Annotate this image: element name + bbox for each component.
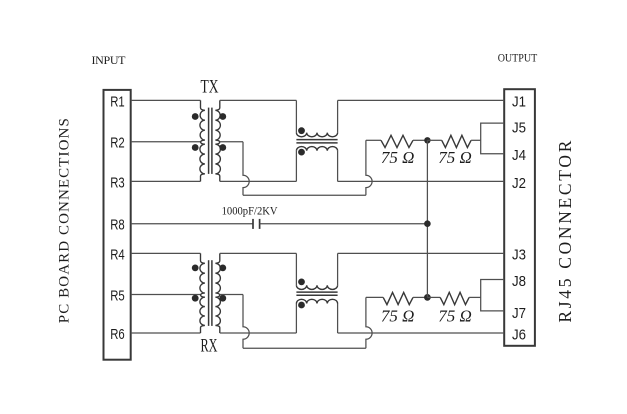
choke L1 top-right lead	[337, 100, 339, 132]
junction node top	[424, 137, 430, 143]
RX core	[208, 260, 210, 326]
wire R6 to RX primary bottom	[131, 332, 201, 334]
resistor 75 ohm (top left)	[381, 135, 413, 147]
svg-text:R2: R2	[110, 135, 125, 152]
choke L1 bottom winding	[296, 147, 337, 151]
svg-text:TX: TX	[201, 77, 219, 98]
svg-text:75 Ω: 75 Ω	[381, 307, 415, 326]
TX tap return run	[243, 194, 366, 196]
choke L2 top winding	[296, 285, 337, 289]
svg-text:1000pF/2KV: 1000pF/2KV	[222, 206, 279, 218]
svg-text:J8: J8	[512, 273, 526, 290]
wire TX secondary bottom to choke L1	[220, 180, 297, 182]
TX primary winding upper	[200, 100, 205, 142]
svg-text:J2: J2	[512, 175, 526, 192]
wire R8 to capacitor	[131, 223, 253, 225]
stub to J5/J4 bracket	[471, 139, 481, 141]
choke L2 top polarity dot	[298, 279, 305, 286]
wire choke L1 to J1	[338, 99, 505, 101]
svg-text:J4: J4	[512, 147, 526, 164]
svg-text:J1: J1	[512, 93, 526, 110]
svg-text:J7: J7	[512, 305, 526, 322]
wire junction to resistor	[427, 139, 441, 141]
wire R4 to RX primary top	[131, 252, 201, 254]
J8/J7 bracket	[481, 280, 505, 311]
resistor 75 ohm (top right)	[442, 135, 471, 147]
wire RX secondary top to choke L2	[220, 252, 297, 254]
wire capacitor to junction bus	[260, 223, 428, 225]
wire TX secondary tap	[220, 141, 243, 143]
choke L2 bottom-right lead	[337, 304, 339, 334]
TX secondary winding lower	[215, 142, 220, 182]
capacitor C1 1000pF	[252, 219, 254, 229]
resistor 75 ohm (bottom right)	[440, 292, 469, 304]
choke L2 top-right lead	[337, 253, 339, 285]
svg-text:75 Ω: 75 Ω	[438, 148, 472, 167]
svg-text:RX: RX	[201, 335, 218, 356]
svg-text:R3: R3	[110, 174, 125, 191]
RX secondary lower polarity dot	[219, 295, 226, 302]
stub to top-left resistor	[366, 139, 381, 141]
PC board connector box	[104, 90, 131, 360]
svg-text:J5: J5	[512, 120, 526, 137]
RX primary winding upper	[200, 253, 205, 295]
wire RX secondary bottom to choke L2	[220, 332, 297, 334]
TX secondary lower polarity dot	[219, 144, 226, 151]
TX primary winding lower	[200, 142, 205, 182]
svg-text:R4: R4	[110, 246, 125, 263]
wire resistor to junction	[413, 139, 427, 141]
choke L1 bottom polarity dot	[298, 149, 305, 156]
wire TX secondary top to choke L1	[220, 99, 297, 101]
wire resistor to junction	[413, 296, 427, 298]
RX tap drop with hop	[243, 295, 249, 349]
choke L2 bottom-left lead	[295, 304, 297, 334]
svg-text:R5: R5	[110, 288, 125, 305]
choke L1 top-left lead	[295, 100, 297, 132]
RX secondary winding upper	[215, 253, 220, 295]
TX primary lower polarity dot	[192, 144, 199, 151]
svg-text:R8: R8	[110, 217, 125, 234]
choke L1 bottom-left lead	[295, 151, 297, 182]
wire choke L2 to J6	[338, 332, 505, 334]
junction capacitor node	[424, 220, 431, 227]
wire R1 to TX primary top	[131, 99, 201, 101]
wire choke L1 to J2	[338, 180, 505, 182]
choke L1 core	[296, 139, 337, 141]
stub to J8/J7 bracket	[469, 296, 481, 298]
svg-text:75 Ω: 75 Ω	[438, 307, 472, 326]
resistor 75 ohm (bottom left)	[383, 292, 413, 304]
RX primary upper polarity dot	[192, 265, 199, 272]
choke L2 bottom winding	[296, 299, 337, 303]
wire R5 to RX primary center tap	[131, 294, 201, 296]
svg-text:J3: J3	[512, 246, 526, 263]
wire R3 to TX primary bottom	[131, 180, 201, 182]
svg-text:R1: R1	[110, 93, 125, 110]
junction bus vertical wire	[426, 140, 428, 297]
choke L2 top-left lead	[295, 253, 297, 285]
riser to top resistors with hop	[366, 140, 372, 195]
RX primary winding lower	[200, 295, 205, 334]
choke L1 top polarity dot	[298, 127, 305, 134]
svg-text:R6: R6	[110, 326, 125, 343]
svg-text:J6: J6	[512, 326, 526, 343]
svg-text:OUTPUT: OUTPUT	[498, 51, 538, 65]
wire RX secondary tap	[220, 294, 243, 296]
wire junction to resistor	[427, 296, 440, 298]
wire choke L2 to J3	[338, 252, 505, 254]
riser to bottom resistors with hop	[366, 297, 372, 348]
TX secondary upper polarity dot	[219, 113, 226, 120]
svg-text:PC BOARD CONNECTIONS: PC BOARD CONNECTIONS	[57, 118, 73, 323]
svg-text:RJ45 CONNECTOR: RJ45 CONNECTOR	[555, 140, 575, 322]
J5/J4 bracket	[481, 123, 505, 154]
choke L1 top winding	[296, 133, 337, 137]
choke L2 core	[296, 291, 337, 293]
junction node bottom	[424, 294, 431, 301]
svg-text:75 Ω: 75 Ω	[381, 148, 415, 167]
choke L2 bottom polarity dot	[298, 302, 305, 309]
TX primary upper polarity dot	[192, 113, 199, 120]
RX primary lower polarity dot	[192, 295, 199, 302]
stub to bottom-left resistor	[366, 296, 383, 298]
RX secondary upper polarity dot	[219, 265, 226, 272]
RJ45 connector box	[504, 89, 535, 346]
RX tap return run	[243, 347, 366, 349]
RX secondary winding lower	[215, 295, 220, 334]
TX secondary winding upper	[215, 100, 220, 142]
wire R2 to TX primary center tap	[131, 141, 201, 143]
choke L1 bottom-right lead	[337, 151, 339, 182]
svg-text:INPUT: INPUT	[92, 53, 127, 67]
TX tap drop with hop	[243, 142, 249, 196]
TX core	[208, 108, 210, 174]
